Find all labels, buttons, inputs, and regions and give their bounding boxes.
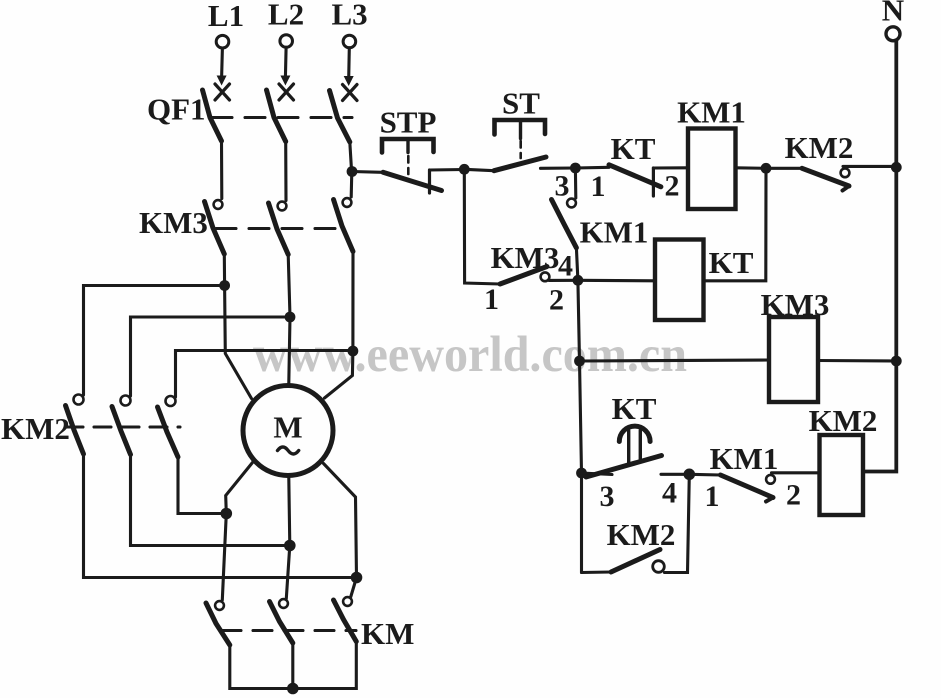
svg-text:KM1: KM1 (710, 441, 779, 476)
STP fixed contact bar (428, 170, 431, 193)
contactor KM pole 2 (270, 599, 293, 643)
svg-text:1: 1 (705, 480, 720, 513)
wire lower-right tap to KM pole3 (351, 578, 357, 598)
wire left rail to KM2 aux (582, 570, 612, 574)
wire QF1 pole2 to KM3 pole2 (284, 142, 287, 201)
svg-text:L1: L1 (208, 0, 244, 33)
node L1 branch (219, 280, 230, 291)
wire KM2 aux up to node G (665, 474, 690, 572)
svg-text:STP: STP (380, 105, 437, 140)
wire N line (863, 41, 896, 472)
svg-text:M: M (273, 410, 302, 445)
svg-text:KT: KT (709, 245, 754, 280)
svg-text:KT: KT (612, 391, 657, 426)
wire STP to node A (430, 168, 465, 172)
wire node L2 to KM2 pole2 top (131, 317, 291, 396)
wire motor lead top (289, 317, 290, 383)
dashed mechanical link KM2 (66, 425, 180, 428)
wire node L3 to KM2 pole3 top (176, 351, 353, 398)
wire KM3 pole1 to node (223, 254, 226, 286)
wire KM3 pole2 to node (288, 255, 290, 318)
breaker QF1 pole 1 blade (203, 90, 222, 141)
wire KT contact to KM1 coil (653, 166, 688, 169)
wire L1 terminal to QF1 (220, 48, 224, 78)
contactor KM2 pole 1 (66, 395, 84, 455)
node L3 branch (348, 346, 359, 357)
coil KM3 (769, 317, 818, 402)
contactor KM pole 1 (206, 601, 230, 645)
node D (573, 275, 584, 286)
wire tap to STP (352, 170, 383, 174)
KM2 aux fixed hook (653, 561, 665, 573)
node L2 branch (285, 312, 296, 323)
breaker QF1 pole 3 blade (330, 91, 350, 143)
svg-text:ST: ST (502, 86, 540, 121)
svg-text:2: 2 (786, 479, 801, 512)
svg-text:4: 4 (558, 250, 573, 283)
KT fixed contact bar (652, 168, 655, 196)
coil KM2 (820, 435, 864, 515)
wire KM3 pole3 to node (351, 252, 354, 352)
pushbutton STP actuator (382, 139, 434, 174)
contactor KM2 pole 2 (112, 396, 131, 455)
arrowhead L1 (217, 76, 227, 86)
wire lower-left tap to KM pole1 (222, 514, 226, 601)
svg-text:KM1: KM1 (677, 95, 746, 130)
wire KM3 aux to node D (549, 279, 578, 282)
arrowhead L3 (344, 76, 354, 86)
KM3 aux fixed hook (541, 272, 550, 281)
wire motor lead lower-left (226, 463, 253, 514)
wire KM2 NC to N line (843, 165, 896, 168)
wire motor lead upper-right (325, 351, 353, 398)
dashed mechanical link KM3 (216, 227, 347, 230)
wire KM1 aux to node D (576, 248, 578, 280)
node control tap on L3 (347, 166, 358, 177)
motor M (243, 386, 333, 476)
wire node D down left rail (578, 280, 582, 572)
svg-text:1: 1 (484, 283, 499, 316)
wire KM star bus (230, 642, 356, 689)
svg-text:2: 2 (549, 284, 564, 317)
node F on left rail (576, 468, 587, 479)
wire KM1 NC to KM2 coil (772, 471, 820, 474)
svg-text:KM2: KM2 (607, 517, 676, 552)
wire L3 terminal to QF1 (347, 48, 351, 79)
breaker cross L2 (279, 84, 294, 100)
terminal N (882, 0, 904, 41)
node lower-right star tap (351, 572, 363, 584)
svg-text:KM2: KM2 (809, 403, 878, 438)
node N top (891, 162, 902, 173)
auxiliary contact KM2 NO blade (611, 550, 660, 573)
node N mid (891, 356, 902, 367)
contactor KM3 pole 2 (269, 202, 289, 255)
wire node C to KM2 NC (766, 167, 802, 170)
wire node L1 to KM2 pole1 top (84, 286, 225, 396)
relay contact KT NO blade (609, 165, 661, 187)
dashed mechanical link KM (222, 629, 356, 632)
svg-text:KM2: KM2 (785, 130, 854, 165)
wire KM1 coil to node C (736, 166, 767, 170)
svg-text:N: N (882, 0, 904, 28)
wire QF1 pole1 to KM3 pole1 (220, 141, 223, 199)
terminal L1 (208, 0, 244, 48)
wire bottom tap to KM pole2 (286, 546, 290, 599)
dashed mechanical link QF1 (212, 116, 352, 119)
node E on left rail (574, 356, 585, 367)
svg-text:KM2: KM2 (1, 411, 70, 446)
timed contact KT NO blade (586, 456, 662, 478)
wire node B to KT contact (575, 166, 609, 170)
breaker cross L1 (215, 84, 230, 100)
svg-text:KM3: KM3 (139, 205, 208, 240)
svg-text:1: 1 (591, 170, 606, 203)
wire ST to node B (541, 166, 576, 169)
svg-text:KM1: KM1 (580, 215, 649, 250)
node star point (287, 683, 299, 695)
svg-text:3: 3 (600, 480, 615, 513)
terminal L3 (332, 0, 368, 48)
svg-text:2: 2 (665, 170, 680, 203)
svg-text:KT: KT (611, 131, 656, 166)
wire KM2 pole3 bottom to node L1r (178, 457, 226, 514)
KM1 NC fixed hook (766, 475, 775, 484)
svg-text:L2: L2 (268, 0, 304, 32)
svg-text:4: 4 (662, 477, 677, 510)
node G (684, 469, 696, 481)
wire L2 terminal to QF1 (284, 47, 288, 78)
wire motor lead bottom (289, 478, 290, 546)
contactor KM2 pole 3 (158, 396, 179, 457)
svg-text:3: 3 (555, 170, 570, 203)
pushbutton ST NO contact blade (494, 157, 546, 171)
auxiliary contact KM3 NO blade (500, 267, 547, 285)
auxiliary contact KM1 NO vertical (552, 199, 577, 248)
timed contact KT delay symbol (619, 426, 650, 464)
breaker cross L3 (343, 85, 358, 101)
node A after STP (459, 164, 470, 175)
arrowhead L2 (280, 76, 290, 86)
pushbutton ST actuator (495, 120, 546, 158)
terminal L2 (268, 0, 304, 47)
wire QF1 pole3 to control tap (350, 142, 352, 172)
wire KT timed to node G (661, 473, 689, 476)
wire node A down to KM3 aux (464, 169, 500, 284)
pushbutton STP NC contact blade (383, 172, 442, 190)
contactor KM3 pole 1 (205, 200, 225, 254)
wire node G to KM1 NC (689, 473, 720, 477)
KM2 NC fixed hook (841, 168, 850, 177)
wire KM2 pole1 bottom to node L3r (84, 454, 357, 578)
node bottom star tap (284, 540, 296, 552)
coil KM1 (688, 129, 736, 210)
wire KM2 pole2 bottom to node L2r (131, 455, 290, 546)
wire KT coil to right riser (704, 168, 767, 280)
wire node F to blade (582, 473, 613, 475)
relay contact KM2 NC blade (802, 168, 849, 190)
wire motor lead lower-right (324, 464, 357, 578)
wire L3 tap to KM3 pole3 (350, 172, 354, 198)
wire motor lead upper-left (225, 286, 252, 399)
breaker QF1 pole 2 blade (267, 90, 286, 142)
svg-text:www.eeworld.com.cn: www.eeworld.com.cn (253, 327, 687, 383)
svg-text:QF1: QF1 (147, 92, 206, 127)
contactor KM3 pole 3 (334, 198, 354, 251)
contactor KM pole 3 (334, 597, 357, 641)
node C (761, 163, 772, 174)
relay contact KM1 NC blade (721, 475, 774, 502)
node lower-left star tap (221, 508, 233, 520)
wire node A to ST (464, 169, 494, 170)
svg-text:L3: L3 (332, 0, 368, 32)
wire KM3 coil to N line (818, 359, 896, 363)
svg-text:KM3: KM3 (491, 240, 560, 275)
node B after ST (570, 163, 581, 174)
wire node D to KT coil (578, 279, 655, 283)
wire node E to KM3 coil (580, 360, 770, 361)
svg-text:KM: KM (361, 616, 414, 651)
coil KT (655, 240, 704, 321)
wire node B down to KM1 aux (574, 168, 577, 198)
